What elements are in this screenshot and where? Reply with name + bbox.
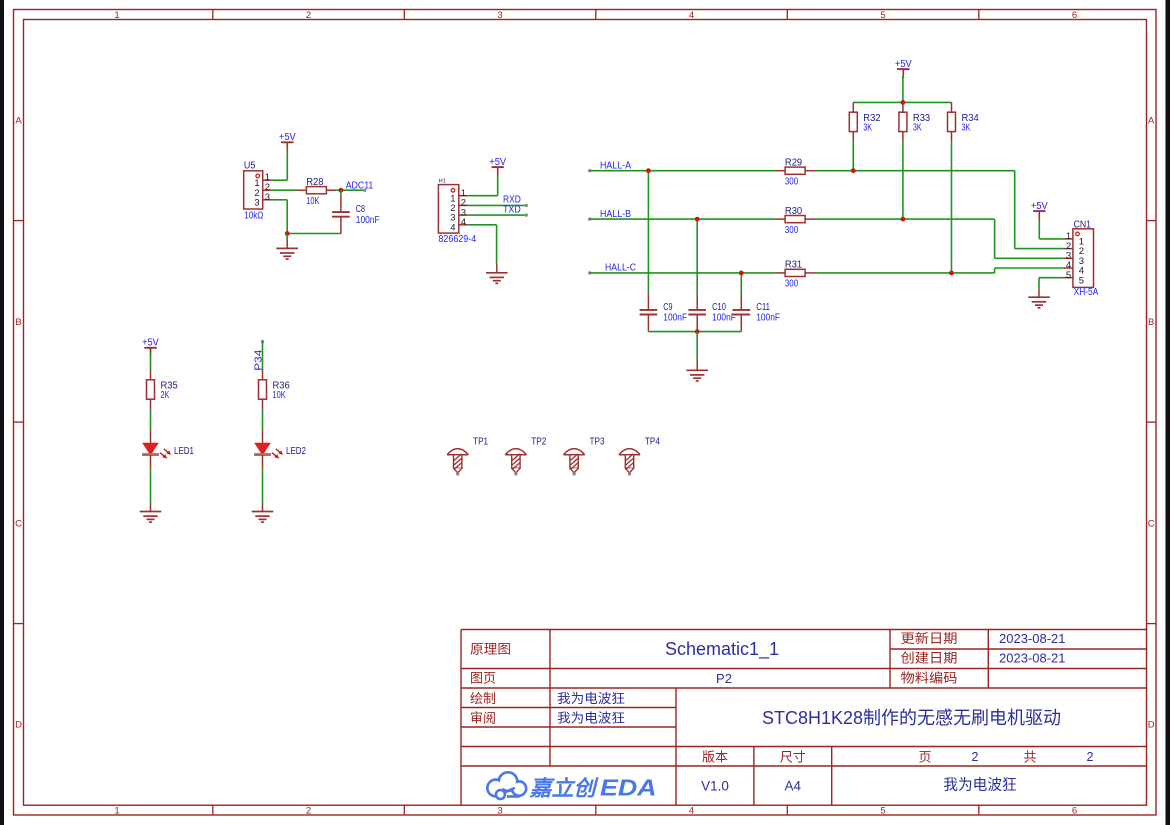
- svg-text:5: 5: [880, 805, 885, 816]
- svg-text:HALL-C: HALL-C: [605, 263, 636, 274]
- svg-text:100nF: 100nF: [756, 313, 780, 324]
- svg-text:4: 4: [450, 222, 455, 233]
- svg-text:A: A: [15, 115, 22, 126]
- svg-text:B: B: [1148, 317, 1154, 328]
- svg-text:2023-08-21: 2023-08-21: [999, 631, 1066, 646]
- svg-text:TP1: TP1: [473, 436, 488, 447]
- svg-text:+5V: +5V: [489, 157, 506, 168]
- svg-text:共: 共: [1023, 749, 1036, 764]
- svg-text:1: 1: [114, 805, 119, 816]
- svg-text:更新日期: 更新日期: [901, 631, 958, 646]
- svg-text:300: 300: [785, 225, 799, 236]
- svg-text:2023-08-21: 2023-08-21: [999, 651, 1066, 666]
- svg-text:2: 2: [306, 10, 311, 21]
- svg-text:HALL-A: HALL-A: [600, 161, 631, 172]
- svg-text:审阅: 审阅: [470, 710, 496, 725]
- svg-text:3: 3: [265, 192, 270, 203]
- svg-text:1: 1: [114, 10, 119, 21]
- svg-text:TP2: TP2: [531, 436, 546, 447]
- svg-text:5: 5: [880, 10, 885, 21]
- svg-text:+5V: +5V: [279, 132, 296, 143]
- svg-text:4: 4: [689, 10, 694, 21]
- svg-text:TP4: TP4: [645, 436, 660, 447]
- svg-text:300: 300: [785, 279, 799, 290]
- svg-text:100nF: 100nF: [663, 313, 687, 324]
- svg-text:A4: A4: [785, 779, 802, 794]
- svg-text:3: 3: [254, 197, 259, 208]
- svg-text:3K: 3K: [863, 122, 872, 133]
- svg-text:3: 3: [497, 10, 502, 21]
- svg-text:R28: R28: [306, 177, 324, 188]
- svg-text:R31: R31: [785, 260, 803, 271]
- svg-text:CN1: CN1: [1074, 219, 1092, 230]
- svg-text:TP3: TP3: [590, 436, 605, 447]
- svg-text:P34: P34: [253, 349, 264, 371]
- svg-text:C8: C8: [356, 204, 366, 215]
- svg-text:LED1: LED1: [174, 446, 194, 457]
- svg-text:10K: 10K: [306, 196, 319, 207]
- svg-text:R29: R29: [785, 157, 803, 168]
- svg-text:5: 5: [1066, 270, 1071, 281]
- svg-text:2K: 2K: [161, 390, 170, 401]
- svg-text:页: 页: [918, 749, 931, 764]
- svg-text:826629-4: 826629-4: [438, 234, 476, 245]
- svg-text:C: C: [1148, 519, 1155, 530]
- svg-text:B: B: [15, 317, 21, 328]
- svg-text:C11: C11: [756, 302, 770, 313]
- svg-text:10kΩ: 10kΩ: [244, 210, 264, 221]
- svg-text:3K: 3K: [913, 122, 922, 133]
- svg-text:我为电波狂: 我为电波狂: [557, 710, 625, 725]
- svg-text:绘制: 绘制: [470, 691, 496, 706]
- svg-text:嘉立创: 嘉立创: [528, 776, 599, 800]
- svg-text:尺寸: 尺寸: [780, 749, 806, 764]
- svg-text:C: C: [15, 519, 22, 530]
- svg-text:HALL-B: HALL-B: [600, 209, 631, 220]
- svg-text:+5V: +5V: [1031, 201, 1048, 212]
- svg-text:6: 6: [1072, 10, 1077, 21]
- svg-text:R30: R30: [785, 206, 803, 217]
- svg-text:TXD: TXD: [503, 204, 521, 215]
- svg-text:2: 2: [1087, 750, 1094, 764]
- svg-text:300: 300: [785, 176, 799, 187]
- svg-text:物料编码: 物料编码: [901, 671, 958, 686]
- svg-text:我为电波狂: 我为电波狂: [943, 776, 1017, 793]
- svg-text:H1: H1: [439, 179, 446, 185]
- svg-text:Schematic1_1: Schematic1_1: [665, 639, 779, 660]
- svg-text:100nF: 100nF: [356, 215, 380, 226]
- svg-text:C10: C10: [712, 302, 726, 313]
- svg-text:版本: 版本: [702, 749, 728, 764]
- svg-text:XH-5A: XH-5A: [1074, 287, 1099, 298]
- svg-text:D: D: [15, 720, 22, 731]
- svg-text:A: A: [1148, 115, 1155, 126]
- svg-text:V1.0: V1.0: [701, 779, 729, 794]
- svg-text:2: 2: [972, 750, 979, 764]
- svg-text:3: 3: [497, 805, 502, 816]
- svg-text:LED2: LED2: [286, 446, 306, 457]
- svg-text:STC8H1K28制作的无感无刷电机驱动: STC8H1K28制作的无感无刷电机驱动: [762, 708, 1061, 728]
- svg-text:+5V: +5V: [142, 338, 159, 349]
- svg-text:4: 4: [461, 217, 466, 228]
- svg-text:5: 5: [1079, 275, 1084, 286]
- svg-text:我为电波狂: 我为电波狂: [557, 691, 625, 706]
- svg-text:+5V: +5V: [895, 59, 912, 70]
- svg-text:10K: 10K: [273, 390, 286, 401]
- svg-text:EDA: EDA: [600, 774, 657, 800]
- svg-text:2: 2: [306, 805, 311, 816]
- svg-text:C9: C9: [663, 302, 673, 313]
- svg-text:3K: 3K: [962, 122, 971, 133]
- svg-text:图页: 图页: [470, 671, 496, 686]
- svg-text:ADC11: ADC11: [346, 180, 374, 191]
- svg-text:D: D: [1148, 720, 1155, 731]
- svg-text:U5: U5: [244, 160, 256, 171]
- svg-text:创建日期: 创建日期: [901, 651, 958, 666]
- svg-text:6: 6: [1072, 805, 1077, 816]
- svg-text:4: 4: [689, 805, 694, 816]
- svg-text:原理图: 原理图: [470, 641, 511, 656]
- svg-text:100nF: 100nF: [712, 313, 736, 324]
- svg-text:P2: P2: [716, 671, 732, 686]
